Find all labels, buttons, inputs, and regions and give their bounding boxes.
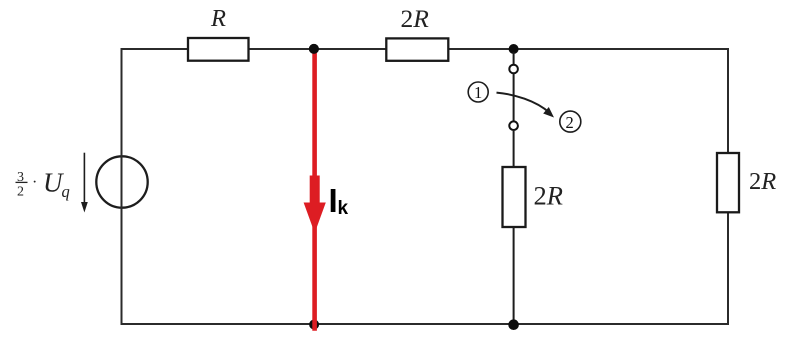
node A dot repaint over red (309, 44, 319, 54)
wire right vertical lower (727, 211, 729, 325)
node A top junction (309, 44, 319, 54)
svg-text:2: 2 (566, 113, 574, 132)
wire right vertical upper (727, 48, 729, 154)
voltage arrow line (83, 153, 85, 204)
resistor R3 body 2R middle (503, 167, 526, 227)
red current arrowhead (304, 203, 326, 234)
svg-text:I: I (329, 182, 338, 219)
short-circuit red wire (312, 49, 317, 331)
switch contact 2 circle (509, 121, 518, 130)
resistor R4 body 2R right (717, 153, 739, 212)
svg-text:1: 1 (474, 83, 482, 102)
wire middle branch lower (513, 227, 515, 324)
position label 1 circle (468, 82, 488, 102)
wire switch stub upper (513, 52, 515, 65)
switch motion arc arrow (497, 93, 550, 113)
svg-text:2R: 2R (401, 4, 430, 33)
position label 2 circle (560, 111, 581, 132)
voltage source U1 circle (96, 156, 147, 207)
wire top between R and 2R (248, 48, 388, 50)
red current arrow shaft (310, 176, 320, 204)
wire top-left horizontal (122, 48, 190, 50)
svg-text:2R: 2R (534, 181, 563, 211)
wire top-right horizontal (448, 48, 729, 50)
node C bottom red junction (309, 320, 319, 330)
resistor R1 body (188, 38, 249, 61)
switch motion arrowhead (543, 107, 554, 118)
node D bottom middle junction (508, 319, 519, 330)
wire switch to resistor (513, 130, 515, 168)
source label fraction bar (16, 181, 28, 183)
voltage arrowhead (81, 202, 88, 213)
wire bottom horizontal (121, 323, 729, 325)
resistor R2 body 2R top (386, 38, 448, 60)
svg-text:k: k (338, 198, 349, 219)
svg-text:q: q (62, 182, 70, 201)
svg-text:R: R (210, 5, 226, 32)
svg-text:2R: 2R (749, 168, 776, 195)
wire left vertical through source (121, 48, 123, 325)
switch blade wire (513, 74, 515, 122)
svg-text:·: · (32, 174, 37, 191)
svg-text:2: 2 (17, 184, 24, 199)
node B switch junction (509, 44, 519, 54)
switch contact 1 circle (509, 65, 518, 74)
